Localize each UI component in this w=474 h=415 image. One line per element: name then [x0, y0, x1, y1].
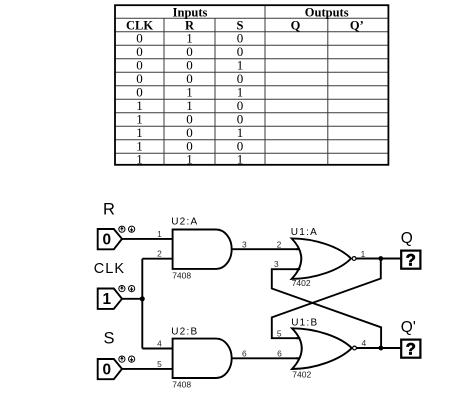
svg-text:7408: 7408	[172, 270, 191, 280]
svg-text:U1:A: U1:A	[291, 227, 318, 238]
svg-text:?: ?	[406, 340, 416, 358]
svg-text:Q’: Q’	[350, 18, 364, 32]
svg-text:1: 1	[157, 229, 162, 239]
svg-text:4: 4	[361, 338, 366, 348]
svg-text:Outputs: Outputs	[305, 5, 349, 19]
svg-text:1: 1	[103, 291, 112, 308]
svg-text:7402: 7402	[292, 278, 311, 288]
svg-text:U2:A: U2:A	[171, 217, 198, 228]
svg-text:Q: Q	[401, 230, 413, 247]
svg-text:1: 1	[237, 151, 244, 166]
svg-text:4: 4	[157, 338, 162, 348]
svg-text:1: 1	[186, 151, 193, 166]
svg-text:?: ?	[406, 251, 416, 269]
svg-text:Inputs: Inputs	[173, 5, 208, 19]
svg-text:U2:B: U2:B	[171, 327, 198, 338]
svg-text:Q': Q'	[401, 319, 416, 336]
svg-text:1: 1	[136, 151, 143, 166]
svg-text:5: 5	[157, 359, 162, 369]
svg-text:R: R	[103, 201, 115, 219]
svg-text:2: 2	[277, 240, 282, 250]
svg-text:U1:B: U1:B	[291, 317, 318, 328]
svg-text:1: 1	[361, 249, 366, 259]
svg-text:6: 6	[277, 349, 282, 359]
svg-text:7408: 7408	[172, 380, 191, 390]
svg-text:S: S	[104, 330, 115, 348]
svg-text:7402: 7402	[292, 370, 311, 380]
svg-text:CLK: CLK	[94, 261, 125, 277]
svg-text:Q: Q	[291, 18, 301, 32]
svg-text:5: 5	[277, 328, 282, 338]
svg-text:0: 0	[103, 362, 112, 379]
svg-text:0: 0	[103, 232, 112, 249]
svg-text:3: 3	[242, 240, 247, 250]
svg-text:3: 3	[274, 259, 279, 269]
svg-text:6: 6	[242, 349, 247, 359]
svg-text:2: 2	[157, 249, 162, 259]
